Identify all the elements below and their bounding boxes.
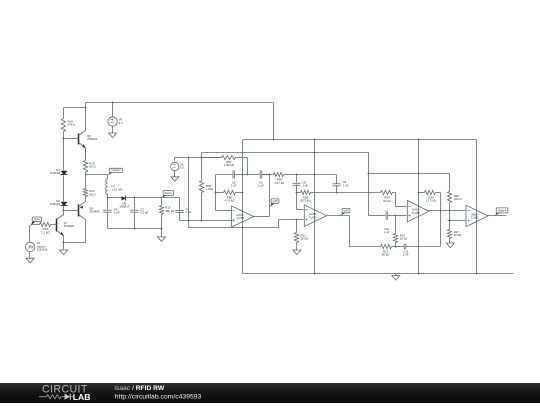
op-amp OA53 xyxy=(407,200,429,222)
svg-text:2N3904: 2N3904 xyxy=(87,137,98,141)
junction xyxy=(269,174,271,176)
svg-text:5 V: 5 V xyxy=(119,121,123,125)
wire vertical bus 3 xyxy=(418,140,420,274)
junction xyxy=(161,228,163,230)
junction xyxy=(63,242,65,244)
wire V6 line xyxy=(175,157,222,159)
op-amp OA51 xyxy=(232,206,254,227)
wire vref step up xyxy=(279,220,304,228)
wire V8 drop xyxy=(273,103,275,140)
capacitor C8 xyxy=(293,175,309,193)
ground below Q7 xyxy=(60,243,68,255)
junction xyxy=(476,273,478,275)
wire op1 minus xyxy=(216,210,232,212)
transistor Q9 xyxy=(79,202,100,220)
footer title text xyxy=(115,385,202,401)
svg-text:15.5 kΩ: 15.5 kΩ xyxy=(426,199,437,203)
wire bottom rail xyxy=(243,273,514,275)
svg-text:390 kΩ: 390 kΩ xyxy=(165,209,175,213)
wire right vertical xyxy=(476,140,478,274)
capacitor C6 xyxy=(244,170,270,187)
junction xyxy=(107,197,109,199)
wire Q8 emitter drop xyxy=(85,148,87,160)
svg-text:LAB: LAB xyxy=(73,392,91,402)
svg-text:56 Ω: 56 Ω xyxy=(89,192,96,196)
CircuitLab logo xyxy=(39,384,90,403)
junction xyxy=(314,174,316,176)
wire emitter to Q9 collector xyxy=(64,220,86,243)
svg-text:1N4148: 1N4148 xyxy=(50,171,61,175)
resistor R13 xyxy=(83,148,96,175)
capacitor C5 xyxy=(216,170,242,187)
flag button xyxy=(161,190,173,198)
junction xyxy=(336,192,338,194)
wire input node xyxy=(29,226,31,242)
resistor R16 xyxy=(61,108,76,139)
junction xyxy=(112,102,114,104)
capacitor C3 xyxy=(130,198,148,229)
svg-text:1.2 kΩ: 1.2 kΩ xyxy=(41,230,50,234)
junction xyxy=(247,174,249,176)
capacitor C2 xyxy=(175,198,191,221)
diode D7 xyxy=(50,168,68,175)
resistor R10 xyxy=(159,198,175,237)
junction xyxy=(242,174,244,176)
svg-text:out6: out6 xyxy=(344,208,350,212)
capacitor C10 xyxy=(384,211,396,234)
voltage source V8 xyxy=(108,117,123,126)
resistor R28 xyxy=(297,190,315,202)
footer bar xyxy=(0,383,540,403)
junction xyxy=(215,192,217,194)
wire op2 minus xyxy=(297,209,304,211)
wire L2 top lead xyxy=(107,175,109,179)
svg-text:10 kΩ: 10 kΩ xyxy=(301,236,309,240)
wire op2 output xyxy=(327,215,350,217)
svg-text:18 kΩ: 18 kΩ xyxy=(400,237,408,241)
wire op1 plus rail xyxy=(180,220,232,222)
resistor R58 xyxy=(216,190,243,202)
capacitor C11 xyxy=(403,244,441,257)
op-amp OA54 xyxy=(466,205,488,226)
svg-text:Wave4: Wave4 xyxy=(498,209,507,213)
wire op1 output xyxy=(254,216,270,218)
wire R25 feedback drop xyxy=(440,193,442,247)
svg-text:1 uF: 1 uF xyxy=(114,210,120,214)
wire long vertical bus 1 xyxy=(242,140,244,274)
wire vref drop to op3 plus xyxy=(368,153,370,216)
svg-text:56 Ω: 56 Ω xyxy=(89,165,96,169)
wire Q8 collector riser xyxy=(85,103,87,131)
resistor R12 xyxy=(83,175,96,202)
wire op2 minus drop xyxy=(296,193,298,210)
flag Wave4 xyxy=(495,208,508,216)
resistor R59 xyxy=(262,172,297,184)
svg-text:1 uF: 1 uF xyxy=(258,183,264,187)
svg-text:TL082: TL082 xyxy=(309,215,317,219)
svg-text:100 Ω: 100 Ω xyxy=(454,197,463,201)
junction xyxy=(440,210,442,212)
ground below V6 xyxy=(171,171,179,182)
wire op4 plus xyxy=(448,220,466,222)
voltage source V6 xyxy=(171,162,185,170)
wire op3 plus segment xyxy=(369,215,385,217)
svg-text:47.5 kΩ: 47.5 kΩ xyxy=(224,199,235,203)
junction xyxy=(85,107,87,109)
svg-text:2.2 uF: 2.2 uF xyxy=(140,210,148,214)
svg-text:1 uF: 1 uF xyxy=(343,183,349,187)
svg-text:2N3906: 2N3906 xyxy=(89,210,100,214)
wire left bottom rail xyxy=(108,228,162,230)
resistor R23 xyxy=(381,244,404,256)
wire R59 line end xyxy=(297,174,337,176)
wire Q8 base xyxy=(64,138,78,140)
svg-text:button: button xyxy=(165,191,173,195)
junction xyxy=(314,273,316,275)
wire top-left stub xyxy=(64,107,86,109)
wire divider link xyxy=(449,211,451,221)
wire op1 output riser xyxy=(269,175,271,217)
junction xyxy=(242,227,244,229)
wire fb box left xyxy=(215,175,217,211)
wire L2 bottom lead xyxy=(107,194,109,198)
wire V6 stem xyxy=(174,158,176,162)
junction xyxy=(201,220,203,222)
junction xyxy=(134,228,136,230)
diode D8 xyxy=(108,196,135,209)
junction xyxy=(395,246,397,248)
wire op4 output xyxy=(488,215,507,217)
flag Input xyxy=(30,217,42,226)
wire Q7 emitter drop xyxy=(63,236,65,243)
ground on bottom rail xyxy=(392,274,400,281)
svg-text:476 Ω: 476 Ω xyxy=(68,123,77,127)
svg-text:TL082: TL082 xyxy=(236,216,244,220)
svg-text:1 MΩ: 1 MΩ xyxy=(206,187,214,191)
junction xyxy=(63,210,65,212)
svg-text:Inductor: Inductor xyxy=(111,168,121,172)
wire V6 drop xyxy=(188,158,190,221)
wire R24 to op3 minus xyxy=(393,193,407,207)
wire rail B xyxy=(243,139,477,141)
junction xyxy=(314,152,316,154)
wire D7-D6 link xyxy=(63,176,65,202)
junction xyxy=(242,152,244,154)
wire softkey node to C2 xyxy=(162,197,180,199)
junction xyxy=(188,157,190,159)
junction xyxy=(296,174,298,176)
wire V8 stem xyxy=(112,103,114,117)
voltage source V2 xyxy=(25,241,47,251)
svg-text:1 uF: 1 uF xyxy=(403,253,409,257)
svg-text:1 uF: 1 uF xyxy=(384,230,390,234)
junction xyxy=(134,197,136,199)
resistor R27 xyxy=(447,221,462,243)
svg-text:TL082: TL082 xyxy=(412,211,420,215)
junction xyxy=(368,173,370,175)
junction xyxy=(296,192,298,194)
flag out6 xyxy=(341,208,350,215)
junction xyxy=(188,220,190,222)
svg-text:2N3904: 2N3904 xyxy=(64,224,75,228)
ground below R10 xyxy=(158,237,166,242)
junction xyxy=(418,273,420,275)
svg-text:1.62 mH: 1.62 mH xyxy=(111,187,122,191)
junction xyxy=(449,220,451,222)
wire op2 output drop xyxy=(350,216,381,247)
transistor Q8 xyxy=(79,131,98,149)
svg-text:90 kΩ: 90 kΩ xyxy=(383,199,391,203)
ground below V8 xyxy=(109,126,117,138)
svg-text:http://circuitlab.com/c439593: http://circuitlab.com/c439593 xyxy=(115,393,202,400)
capacitor C4 xyxy=(103,198,120,229)
resistor R26 xyxy=(447,174,462,211)
resistor R57 xyxy=(202,155,248,167)
wire pullup feed xyxy=(369,173,450,175)
svg-text:10 kΩ: 10 kΩ xyxy=(454,233,462,237)
junction xyxy=(201,157,203,159)
junction xyxy=(314,139,316,141)
wire rail A +5V xyxy=(86,102,274,104)
wire vref rail drop xyxy=(189,221,279,228)
transistor Q7 xyxy=(57,215,75,237)
junction xyxy=(418,139,420,141)
resistor R21 xyxy=(294,220,309,250)
svg-text:125 kHz: 125 kHz xyxy=(37,248,48,252)
ground below V2 xyxy=(26,252,34,263)
op-amp OA52 xyxy=(304,205,326,227)
svg-text:3.67 kΩ: 3.67 kΩ xyxy=(274,181,285,185)
wire op3 output xyxy=(429,210,466,212)
resistor R24 xyxy=(381,190,393,202)
resistor R15 xyxy=(32,222,57,234)
wire fb line stage2 xyxy=(315,192,381,194)
junction xyxy=(449,210,451,212)
junction xyxy=(418,173,420,175)
junction xyxy=(63,138,65,140)
junction xyxy=(85,174,87,176)
resistor R56 xyxy=(199,153,213,221)
wire rail C xyxy=(202,152,369,154)
svg-text:TL082: TL082 xyxy=(471,216,479,220)
wire node to Q7 collector xyxy=(63,211,65,216)
svg-text:1N4148: 1N4148 xyxy=(50,202,61,206)
wire C10 to op3 plus xyxy=(396,215,407,217)
inductor L2 xyxy=(106,179,123,195)
wire Q9 base xyxy=(64,210,79,212)
junction xyxy=(273,139,275,141)
wire D7 anode lead xyxy=(63,139,65,171)
diode D6 xyxy=(50,199,68,206)
resistor R25 xyxy=(419,190,441,202)
wire R57 drop xyxy=(247,158,249,175)
junction xyxy=(395,215,397,217)
flag out5 xyxy=(270,199,279,207)
svg-text:1 uF: 1 uF xyxy=(231,183,237,187)
wire D6 cathode lead xyxy=(63,206,65,211)
resistor R22 xyxy=(393,216,408,247)
wire vertical bus 2 xyxy=(314,140,316,274)
junction xyxy=(418,192,420,194)
ground below R21 xyxy=(293,250,301,255)
svg-text:1.82 kΩ: 1.82 kΩ xyxy=(224,163,235,167)
svg-text:90 kΩ: 90 kΩ xyxy=(382,252,390,256)
svg-text:5 V: 5 V xyxy=(180,166,184,170)
svg-text:isaac / RFID RW: isaac / RFID RW xyxy=(115,385,165,392)
wire node to inductor flag xyxy=(86,174,108,176)
svg-text:1 uF: 1 uF xyxy=(302,183,308,187)
junction xyxy=(296,219,298,221)
wire detector node to softkey node xyxy=(135,197,162,199)
capacitor C9 xyxy=(333,175,349,193)
junction xyxy=(242,192,244,194)
svg-text:1N5817: 1N5817 xyxy=(119,205,130,209)
svg-text:out5: out5 xyxy=(272,199,278,203)
svg-text:Input: Input xyxy=(34,217,40,221)
ground below R27 xyxy=(446,243,454,248)
svg-text:82.5 kΩ: 82.5 kΩ xyxy=(300,199,311,203)
flag Inductor xyxy=(108,168,123,175)
